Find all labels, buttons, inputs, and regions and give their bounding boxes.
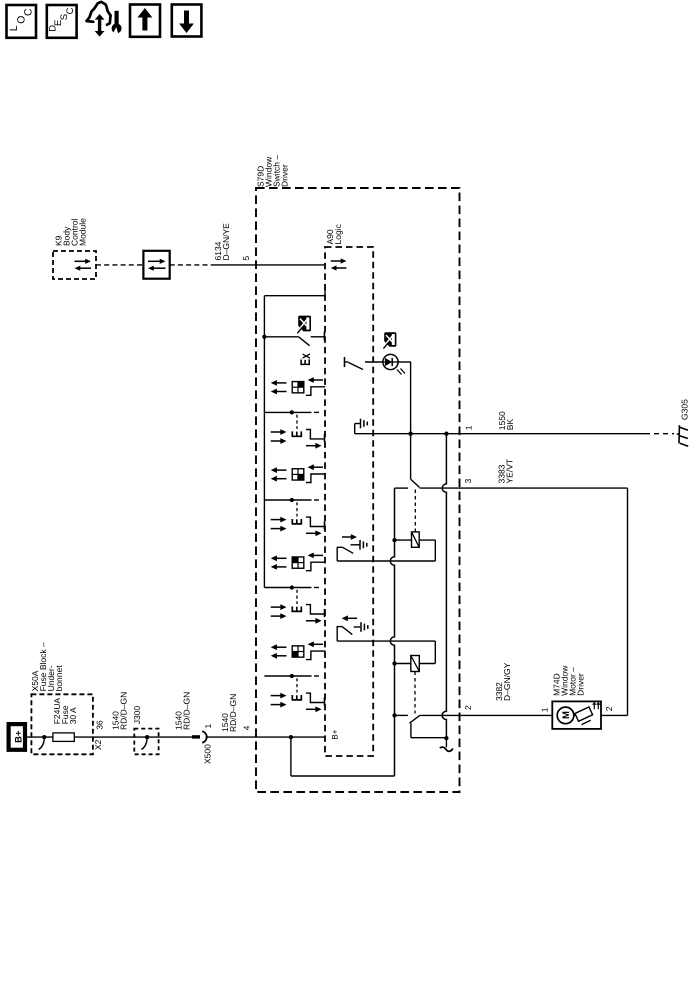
- svg-text:Logic: Logic: [333, 223, 343, 244]
- svg-text:D–GN/GY: D–GN/GY: [502, 662, 512, 701]
- svg-text:J300: J300: [132, 706, 142, 725]
- svg-text:RD/D–GN: RD/D–GN: [228, 694, 238, 732]
- svg-text:L: L: [8, 25, 20, 31]
- svg-text:30 A: 30 A: [68, 707, 78, 724]
- svg-text:G305: G305: [680, 399, 690, 420]
- svg-text:1: 1: [203, 724, 213, 729]
- svg-text:X500: X500: [203, 744, 213, 764]
- svg-text:YE/VT: YE/VT: [504, 459, 514, 484]
- svg-text:B+: B+: [330, 729, 339, 739]
- svg-text:X2: X2: [93, 739, 103, 750]
- svg-text:2: 2: [463, 705, 473, 710]
- svg-text:1: 1: [539, 707, 549, 712]
- svg-text:36: 36: [95, 720, 105, 730]
- svg-text:B+: B+: [14, 730, 25, 743]
- svg-text:Driver: Driver: [575, 673, 585, 696]
- svg-text:bonnet: bonnet: [54, 665, 64, 692]
- svg-text:4: 4: [241, 725, 251, 730]
- svg-text:5: 5: [241, 256, 251, 261]
- svg-text:3: 3: [463, 479, 473, 484]
- svg-text:C: C: [23, 8, 35, 16]
- svg-text:2: 2: [604, 706, 614, 711]
- svg-text:Module: Module: [78, 218, 88, 246]
- svg-text:M: M: [561, 711, 572, 719]
- svg-text:Driver: Driver: [280, 164, 290, 187]
- svg-text:Ex: Ex: [297, 353, 313, 366]
- svg-text:BK: BK: [505, 419, 515, 431]
- svg-text:1: 1: [463, 425, 473, 430]
- svg-text:RD/D–GN: RD/D–GN: [181, 692, 191, 730]
- svg-text:RD/D–GN: RD/D–GN: [118, 692, 128, 730]
- svg-text:C: C: [65, 7, 76, 14]
- svg-text:D–GN/YE: D–GN/YE: [221, 223, 231, 261]
